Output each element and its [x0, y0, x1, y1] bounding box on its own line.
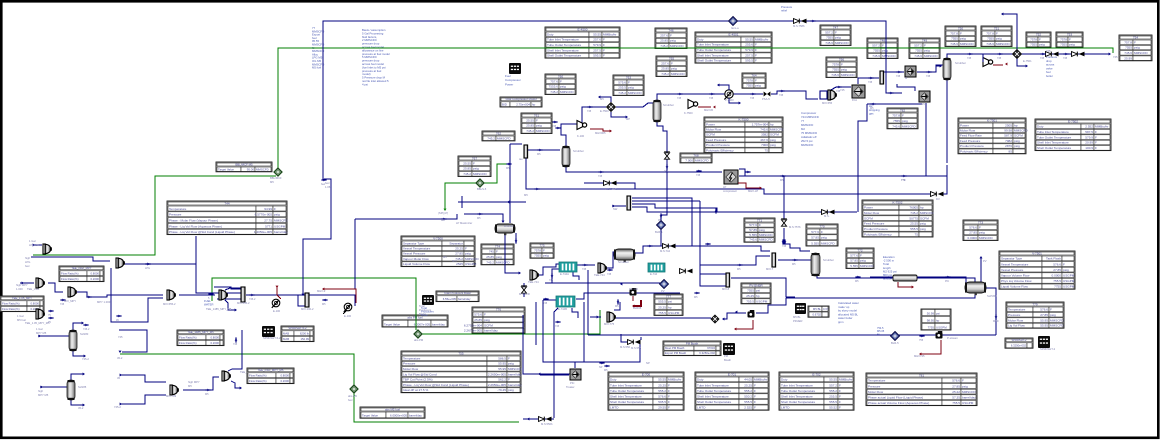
svg-text:1 Gal: 1 Gal — [29, 239, 36, 243]
table stream 746 — [655, 28, 687, 49]
svg-text:F: F — [668, 383, 670, 387]
svg-text:psig: psig — [508, 388, 514, 392]
wire snubber to tee744a — [505, 234, 519, 273]
svg-text:MMSCFD: MMSCFD — [274, 219, 288, 223]
svg-text:M5: M5 — [792, 263, 796, 266]
svg-text:M5: M5 — [615, 305, 619, 308]
svg-text:745-2: 745-2 — [249, 298, 256, 301]
icon diamond BLR1 — [657, 221, 666, 230]
arrow maroon K2 — [713, 106, 715, 109]
svg-text:PM Boath: PM Boath — [686, 341, 699, 345]
svg-text:MIX-775: MIX-775 — [604, 322, 615, 326]
svg-text:F: F — [1069, 37, 1071, 41]
icon compressor K-100 — [577, 121, 587, 130]
arrow sln85 feed — [41, 386, 43, 389]
arrow mixerC feed — [22, 282, 24, 285]
svg-text:745: 745 — [607, 273, 612, 276]
svg-text:576.6: 576.6 — [969, 225, 977, 229]
wire green adjust PM — [212, 278, 416, 330]
wire valve drain — [611, 112, 626, 117]
svg-text:Pressure: Pressure — [868, 384, 881, 388]
svg-text:55.55: 55.55 — [658, 378, 666, 382]
svg-text:Shell Outlet Temperature: Shell Outlet Temperature — [1037, 146, 1071, 150]
svg-text:Duty: Duty — [1037, 125, 1044, 129]
svg-text:F: F — [603, 43, 605, 47]
svg-text:45-2: 45-2 — [117, 356, 123, 360]
table stream 781 big bottom — [866, 373, 977, 406]
svg-text:SCFM: SCFM — [864, 216, 873, 220]
svg-text:psig: psig — [821, 236, 827, 240]
wire LP out east — [739, 175, 947, 177]
svg-text:7578: 7578 — [746, 78, 753, 82]
wire tee744b up to drum3 — [606, 252, 616, 268]
svg-text:E-7500: E-7500 — [600, 109, 609, 113]
table stream 760 — [545, 74, 576, 95]
svg-text:USGPM: USGPM — [465, 262, 477, 266]
svg-text:SLN85: SLN85 — [78, 385, 87, 389]
table spreadsheet SPRDSHT-5-2 — [281, 326, 314, 342]
svg-text:Tube Outlet Temperature: Tube Outlet Temperature — [610, 389, 645, 393]
icon adjust diamond BBL — [274, 168, 282, 176]
svg-text:7578: 7578 — [1030, 37, 1037, 41]
svg-text:774: 774 — [495, 244, 500, 248]
svg-text:745.2: 745.2 — [910, 211, 918, 215]
svg-text:M.S.7586: M.S.7586 — [793, 24, 805, 28]
svg-text:F: F — [924, 43, 926, 47]
svg-text:M.S.7576: M.S.7576 — [789, 225, 801, 229]
svg-text:K-7502: K-7502 — [893, 200, 903, 204]
svg-text:771: 771 — [757, 218, 762, 222]
table compressor K-7502 — [862, 200, 934, 237]
svg-text:6.55e+005: 6.55e+005 — [443, 297, 457, 301]
valve pair y183 — [604, 181, 617, 186]
svg-text:576.6: 576.6 — [1053, 262, 1061, 266]
table adjust abs-M5 target — [360, 407, 425, 418]
svg-text:557.2: 557.2 — [825, 30, 833, 34]
svg-text:Product Pressure: Product Pressure — [960, 144, 984, 148]
arrow BLR2 out — [722, 318, 724, 321]
svg-text:7555: 7555 — [893, 119, 900, 123]
svg-text:M5: M5 — [322, 303, 326, 306]
svg-text:Tube Outlet Temperature: Tube Outlet Temperature — [781, 389, 816, 393]
svg-text:psig: psig — [770, 143, 776, 147]
svg-text:MIX-100-2: MIX-100-2 — [301, 307, 314, 311]
svg-text:LPG: LPG — [145, 267, 150, 270]
svg-text:Tube Inlet Temperature: Tube Inlet Temperature — [697, 43, 729, 47]
svg-text:F: F — [754, 395, 756, 399]
svg-text:psig: psig — [496, 255, 502, 259]
arrow main line end — [1109, 53, 1111, 56]
table cooler E-702 — [779, 372, 854, 410]
svg-text:psig: psig — [920, 222, 926, 226]
svg-text:MMBtu/hr: MMBtu/hr — [755, 37, 768, 41]
svg-text:F: F — [274, 207, 276, 211]
svg-text:761: 761 — [534, 113, 539, 117]
svg-text:577.6: 577.6 — [811, 230, 819, 234]
svg-text:psig: psig — [882, 49, 888, 53]
svg-text:barrel/day: barrel/day — [484, 329, 498, 333]
svg-text:SPRDSHT-5-2: SPRDSHT-5-2 — [263, 336, 281, 340]
arrow SW feed — [1001, 13, 1003, 16]
svg-text:tee: tee — [519, 157, 523, 161]
svg-text:SCFM: SCFM — [706, 133, 715, 137]
svg-text:Flow Ratio(%): Flow Ratio(%) — [249, 379, 267, 383]
svg-text:5.555: 5.555 — [749, 233, 757, 237]
svg-text:Molar Flow: Molar Flow — [403, 367, 419, 371]
wire pump to PSA valve — [733, 93, 763, 95]
arrow pump vent — [717, 84, 719, 87]
svg-text:M5: M5 — [870, 107, 874, 110]
icon plate tee — [524, 145, 528, 158]
table spreadsheet SPRDSHT-2 — [1005, 338, 1033, 348]
wire x543 vertical — [543, 300, 579, 362]
svg-text:K-100: K-100 — [577, 134, 585, 138]
svg-text:Shell Inlet Temperature: Shell Inlet Temperature — [1037, 141, 1069, 145]
table stream 766 — [826, 57, 857, 78]
valve pair M.S.7586 — [794, 19, 807, 24]
wire x355 down — [354, 219, 356, 289]
svg-text:LPG: LPG — [25, 260, 30, 264]
svg-text:psig: psig — [465, 252, 471, 256]
wire LP nub — [739, 169, 745, 176]
svg-text:745.6: 745.6 — [986, 42, 994, 46]
svg-text:M.S.556: M.S.556 — [631, 346, 642, 350]
svg-text:Shell Inlet Temperature: Shell Inlet Temperature — [697, 395, 729, 399]
svg-text:MMBtu/hr: MMBtu/hr — [1095, 125, 1108, 129]
svg-text:745-2: 745-2 — [82, 357, 89, 361]
wire main header top — [323, 21, 902, 180]
svg-text:Total Compressor Power: Total Compressor Power — [505, 97, 537, 101]
svg-text:0.8000: 0.8000 — [210, 336, 219, 340]
svg-text:755.5: 755.5 — [658, 311, 666, 315]
wire maroon gear drop — [736, 320, 753, 329]
svg-text:psig: psig — [484, 318, 490, 322]
table stream 754 — [1119, 35, 1152, 61]
svg-text:595.5: 595.5 — [593, 54, 601, 58]
icon diamond PV2 — [660, 280, 669, 289]
wire mix789 feed1 — [120, 375, 166, 382]
svg-text:6.2750e+004: 6.2750e+004 — [464, 323, 482, 327]
arrow gear in — [735, 311, 737, 314]
arrow diamond drain — [1026, 65, 1028, 68]
svg-text:775: 775 — [539, 243, 544, 247]
table stream 773 — [963, 220, 998, 241]
stream flow ticks with labels — [145, 263, 150, 264]
table stream 768 — [680, 153, 712, 163]
svg-text:7555: 7555 — [747, 289, 754, 293]
svg-text:LMTD: LMTD — [610, 406, 619, 410]
svg-text:Feed Flow Rate: Feed Flow Rate — [960, 134, 982, 138]
svg-text:745: 745 — [967, 57, 972, 60]
svg-text:psig: psig — [671, 67, 677, 71]
wire plate1 to scrubber3 — [778, 259, 811, 261]
svg-text:7555: 7555 — [1060, 43, 1067, 47]
arrow valve419 — [527, 418, 529, 421]
icon drum SLPWR — [965, 282, 986, 295]
arrow mix789 f2 — [120, 403, 122, 406]
svg-text:576.6: 576.6 — [1040, 308, 1048, 312]
wire mix789 out — [183, 377, 219, 390]
svg-text:Vessel Pressure: Vessel Pressure — [403, 252, 426, 256]
icon spreadsheet fuel-compressor-power — [509, 63, 521, 74]
svg-text:25.85: 25.85 — [526, 124, 534, 128]
svg-text:fuel: fuel — [25, 264, 30, 268]
icon mixer B — [116, 258, 125, 268]
wire relief x784 lower — [784, 228, 810, 251]
table stream 778 — [741, 283, 771, 304]
svg-text:Scrubber: Scrubber — [663, 103, 674, 107]
svg-text:25.25: 25.25 — [744, 383, 752, 387]
svg-text:75: 75 — [765, 148, 769, 152]
arrow maroon LP — [760, 187, 762, 190]
icon adjust diamond BBLS-5 — [476, 179, 484, 187]
svg-text:F: F — [759, 223, 761, 227]
svg-text:M.S.744x: M.S.744x — [605, 187, 617, 191]
svg-text:Shell Inlet Temperature: Shell Inlet Temperature — [781, 395, 813, 399]
svg-text:MMSCFD: MMSCFD — [759, 233, 773, 237]
svg-text:7082: 7082 — [1005, 139, 1012, 143]
svg-text:755.5: 755.5 — [746, 299, 754, 303]
svg-text:psig: psig — [841, 68, 847, 72]
arrow vent left — [598, 96, 600, 99]
arrow x523 end — [538, 373, 540, 376]
svg-text:LPG fuel: LPG fuel — [29, 243, 40, 247]
svg-text:745: 745 — [1046, 49, 1051, 53]
svg-text:748: 748 — [880, 38, 885, 42]
svg-text:745.6: 745.6 — [1124, 51, 1132, 55]
svg-text:Scrubber: Scrubber — [573, 149, 584, 153]
wire gear maroon — [921, 340, 941, 354]
svg-text:F: F — [465, 247, 467, 251]
svg-text:Meet PM Boath: Meet PM Boath — [665, 346, 685, 350]
svg-text:PV: PV — [983, 259, 987, 263]
svg-text:745.2: 745.2 — [486, 260, 494, 264]
svg-text:MMSCFD: MMSCFD — [671, 72, 685, 76]
wire pipe maroon hook — [898, 282, 912, 287]
svg-text:psig: psig — [508, 362, 514, 366]
wire PSA valve to mix — [771, 91, 818, 99]
icon vessel SLN85 — [67, 380, 75, 400]
svg-text:M5: M5 — [537, 153, 541, 156]
icon vessel scrubber2 — [653, 100, 661, 122]
wire K100 up to valve — [582, 107, 606, 124]
icon spreadsheet SPRDSHT-2b — [1038, 336, 1050, 348]
svg-text:Phase actual Liquid Flow (Liqu: Phase actual Liquid Flow (Liquid Phase) — [868, 396, 923, 400]
wire plateL feed1 — [214, 287, 241, 289]
svg-text:barrel/day: barrel/day — [458, 297, 471, 301]
svg-text:MMSCFD: MMSCFD — [1050, 324, 1064, 328]
svg-text:Temperature: Temperature — [1008, 308, 1026, 312]
table stream 747 — [820, 25, 851, 46]
svg-text:257.5: 257.5 — [593, 48, 601, 52]
svg-text:Duty: Duty — [610, 378, 617, 382]
svg-text:MMSCFD: MMSCFD — [962, 390, 976, 394]
arrow manifold feed — [613, 205, 615, 208]
svg-text:psig: psig — [1050, 313, 1056, 317]
svg-text:MIX_MPY: MIX_MPY — [64, 299, 76, 303]
table tee TEE_1.05_MPY — [0, 296, 44, 312]
svg-text:586.5: 586.5 — [498, 356, 506, 360]
wire manifold out3 — [632, 204, 717, 212]
svg-text:57.85: 57.85 — [749, 228, 757, 232]
table adjust BBL-MCF — [216, 162, 272, 172]
svg-text:MMSCFD: MMSCFD — [560, 90, 574, 94]
arrow pump drain — [739, 102, 741, 105]
svg-text:745.6: 745.6 — [950, 42, 958, 46]
svg-text:555.2: 555.2 — [658, 389, 666, 393]
wire plate2 feed2 — [700, 285, 726, 287]
wire feed856 x147 — [119, 330, 147, 352]
svg-text:55.95: 55.95 — [498, 367, 506, 371]
svg-text:7555: 7555 — [534, 254, 541, 258]
svg-text:768: 768 — [693, 153, 698, 157]
svg-text:555.2: 555.2 — [744, 389, 752, 393]
svg-text:745.6: 745.6 — [760, 128, 768, 132]
svg-text:7555: 7555 — [915, 49, 922, 53]
svg-text:772: 772 — [857, 248, 862, 252]
wire teal2 out — [576, 293, 596, 299]
svg-text:Tube Outlet Temperature: Tube Outlet Temperature — [697, 389, 732, 393]
svg-text:TEE_: TEE_ — [240, 370, 247, 374]
wire plate tee out — [528, 149, 560, 151]
svg-text:5.555: 5.555 — [811, 242, 819, 246]
svg-text:M5 BL: M5 BL — [813, 307, 822, 311]
arrow tee2 drain — [240, 387, 242, 390]
svg-text:MMSCFD: MMSCFD — [821, 242, 835, 246]
icon vessel scrubber1 — [562, 146, 570, 167]
svg-text:psig: psig — [979, 231, 985, 235]
icon spreadsheet PM boath — [723, 343, 735, 355]
svg-text:psig: psig — [902, 119, 908, 123]
wire mixerA out — [31, 257, 110, 261]
svg-text:Ideal dP at 27.5 %: Ideal dP at 27.5 % — [403, 388, 428, 392]
svg-text:7555: 7555 — [951, 37, 958, 41]
svg-text:F: F — [839, 389, 841, 393]
svg-text:2.2670e+005: 2.2670e+005 — [464, 329, 482, 333]
wire pic west arrow line — [540, 374, 569, 376]
svg-text:F: F — [670, 33, 672, 37]
svg-text:745: 745 — [782, 245, 787, 248]
svg-text:MIX-7: MIX-7 — [766, 267, 774, 271]
svg-text:577.6: 577.6 — [749, 223, 757, 227]
svg-text:6.5770e-005: 6.5770e-005 — [255, 213, 273, 217]
arrow maroon E100 — [276, 286, 279, 288]
svg-text:psig: psig — [924, 49, 930, 53]
wire pipeline west — [870, 276, 893, 278]
icon mixer C — [36, 278, 45, 288]
svg-text:F: F — [668, 406, 670, 410]
svg-text:MMSCFD: MMSCFD — [465, 257, 479, 261]
svg-text:BID: BID — [502, 103, 507, 107]
wire maroon E100 drop — [277, 287, 281, 299]
icon vessel scrubber4 — [943, 58, 951, 80]
svg-text:7578: 7578 — [1060, 37, 1067, 41]
arrow into snubber — [502, 221, 505, 223]
svg-text:Vessel Temperature: Vessel Temperature — [1001, 262, 1029, 266]
wire mixerF up out — [225, 288, 243, 290]
svg-text:F: F — [628, 80, 630, 84]
svg-text:782: 782 — [900, 108, 905, 112]
svg-text:psig: psig — [1039, 43, 1045, 47]
svg-text:PIC: PIC — [945, 280, 949, 283]
icon heater M — [905, 66, 916, 77]
wire header jog down — [303, 179, 331, 295]
wire gear east steps — [756, 298, 786, 313]
svg-text:F: F — [839, 383, 841, 387]
svg-text:Tube Outlet Temperature: Tube Outlet Temperature — [1037, 135, 1072, 139]
svg-text:E-7502: E-7502 — [1068, 119, 1078, 123]
svg-text:F: F — [902, 114, 904, 118]
svg-text:745: 745 — [118, 335, 123, 339]
wire check686 line — [596, 292, 680, 294]
svg-text:Total: Total — [419, 304, 425, 308]
svg-text:psig: psig — [628, 86, 634, 90]
svg-text:Polytropic Efficiency: Polytropic Efficiency — [960, 149, 988, 153]
svg-text:F: F — [603, 54, 605, 58]
svg-text:E-100: E-100 — [273, 309, 281, 313]
svg-text:E-700: E-700 — [642, 372, 651, 376]
wire valve556 vent — [640, 337, 642, 340]
svg-text:Molar Flow: Molar Flow — [960, 129, 976, 133]
wire mixerD out — [77, 292, 163, 297]
svg-text:2.75e+004: 2.75e+004 — [516, 103, 530, 107]
valve pair PSA-2 — [1072, 52, 1085, 57]
svg-text:755: 755 — [458, 351, 463, 355]
table stream 753 — [1056, 32, 1083, 47]
svg-text:MMBtu/hr: MMBtu/hr — [839, 378, 852, 382]
svg-text:SPRDSHT-5-2: SPRDSHT-5-2 — [288, 326, 307, 330]
svg-text:Pressure: Pressure — [1008, 313, 1021, 317]
svg-text:F: F — [979, 225, 981, 229]
svg-text:749: 749 — [922, 38, 927, 42]
svg-text:MMSCFD: MMSCFD — [996, 42, 1010, 46]
svg-text:hp: hp — [1014, 123, 1018, 127]
svg-text:750: 750 — [958, 26, 963, 30]
svg-text:F: F — [473, 161, 475, 165]
svg-text:TEE_1485_MPY_M5: TEE_1485_MPY_M5 — [187, 330, 214, 334]
svg-text:745.2: 745.2 — [487, 136, 495, 140]
svg-text:psig: psig — [770, 138, 776, 142]
svg-text:562.2: 562.2 — [498, 378, 506, 382]
svg-text:745: 745 — [582, 268, 587, 271]
icon spreadsheet boiler M5BL — [795, 303, 806, 314]
svg-text:MAB: MAB — [283, 332, 289, 336]
svg-text:0.0000: 0.0000 — [1052, 274, 1062, 278]
svg-text:MMSCFD: MMSCFD — [979, 236, 993, 240]
wire green adjust BBLS west — [445, 183, 476, 210]
svg-text:745: 745 — [677, 97, 682, 100]
svg-text:257.6: 257.6 — [660, 33, 668, 37]
svg-text:Tube Inlet Temperature: Tube Inlet Temperature — [610, 383, 642, 387]
svg-text:F: F — [1039, 37, 1041, 41]
svg-text:Duty: Duty — [697, 37, 704, 41]
svg-text:27.85: 27.85 — [1053, 268, 1061, 272]
svg-text:745: 745 — [696, 174, 701, 177]
svg-text:Total Producers Boiler: Total Producers Boiler — [444, 291, 471, 295]
svg-text:F: F — [496, 250, 498, 254]
svg-text:25.85: 25.85 — [486, 255, 494, 259]
svg-text:779: 779 — [1032, 302, 1037, 306]
svg-text:576.6: 576.6 — [952, 379, 960, 383]
wire valve up vent — [599, 97, 611, 102]
svg-text:MMSCFD: MMSCFD — [835, 41, 849, 45]
wire plate MIX100 feed — [290, 295, 305, 306]
svg-text:577.6: 577.6 — [850, 253, 858, 257]
wire plate2 feeds — [700, 273, 726, 275]
icon relief valve 524 — [521, 286, 527, 293]
icon compressor K3 — [983, 58, 993, 67]
svg-text:F: F — [755, 59, 757, 63]
